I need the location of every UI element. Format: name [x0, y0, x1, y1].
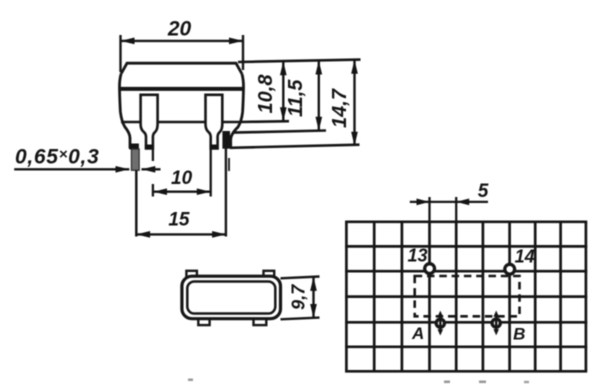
svg-text:14: 14	[515, 247, 535, 267]
svg-text:0,65×0,3: 0,65×0,3	[15, 146, 99, 169]
svg-text:10: 10	[171, 168, 193, 189]
svg-text:11,5: 11,5	[285, 79, 307, 117]
svg-text:9,7: 9,7	[289, 284, 309, 310]
svg-text:20: 20	[167, 18, 192, 41]
svg-text:5: 5	[478, 181, 489, 202]
svg-text:14,7: 14,7	[329, 88, 351, 128]
svg-text:15: 15	[168, 210, 190, 231]
svg-text:A: A	[411, 324, 424, 343]
svg-text:B: B	[513, 325, 525, 344]
svg-text:13: 13	[407, 246, 427, 266]
svg-text:10,8: 10,8	[255, 74, 277, 114]
